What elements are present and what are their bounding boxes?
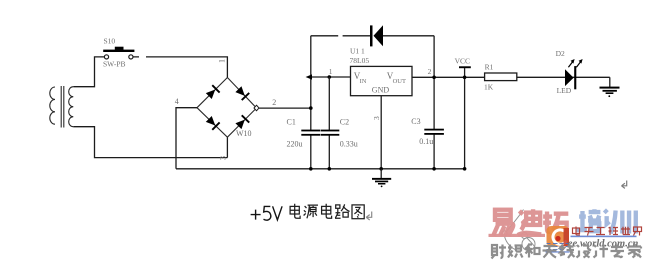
svg-text:W10: W10 [236,129,252,138]
wire secondary bottom to bridge pin3 [73,127,227,158]
char 源 [304,205,318,218]
wire bridge pin4 to ground rail [176,108,197,169]
watermark big pink 易 [493,209,568,236]
wire LED to right ground [609,77,611,87]
bridge diode lower-left [205,115,220,130]
svg-text:GND: GND [372,85,390,94]
wire switch to bridge top (with gap) [133,57,227,78]
VIN vertical line / C1 branch [310,36,312,169]
LED emission arrows [568,61,581,67]
watermark big blue 训 [604,210,635,234]
bridge diode upper-left [205,85,220,100]
svg-text:1: 1 [218,59,227,63]
svg-text:78L05: 78L05 [350,56,370,65]
专 [611,245,625,258]
svg-text:S10: S10 [104,37,116,46]
return mark right [622,181,627,189]
频 [508,245,523,258]
watermark small red 电子工程世界 [573,227,642,236]
capacitor C1 [301,130,320,132]
bridge diode upper-right [235,86,250,101]
capacitor C3 [424,129,444,131]
watermark big pink 拓 [543,211,568,231]
watermark logo square [547,226,570,247]
svg-text:1K: 1K [484,83,494,92]
svg-text:3: 3 [219,156,228,160]
wire secondary top to switch [73,57,104,87]
watermark small blue text under logo [547,244,570,250]
junction dot pin2/C3 [432,76,436,80]
svg-text:D2: D2 [556,49,565,58]
center ground symbol [380,169,382,179]
char 路 [335,204,350,218]
arrowhead at VIN [306,74,312,79]
线 [560,245,575,259]
设 [577,245,592,258]
svg-text:OUT: OUT [393,78,406,85]
diode D1 (reverse protection, pointing left) [370,25,373,46]
svg-text:R1: R1 [485,63,494,72]
wire regulator pin1 with arrow [311,76,351,78]
caption CJK 电源电路图 (hand drawn) [290,204,364,219]
resistor R1 [485,73,517,81]
svg-text:3: 3 [372,116,381,120]
svg-text:0.33u: 0.33u [340,139,358,148]
和 [525,245,540,258]
rail junction dots [309,167,313,171]
家 [628,244,641,258]
transformer core [61,86,64,128]
char 电 (second) [322,204,332,218]
char 图 [352,205,364,219]
svg-text:SW-PB: SW-PB [103,60,126,69]
wire bridge pin2 to VIN node [259,107,311,109]
C3 / diode-loop right vertical [433,36,435,169]
svg-text:2: 2 [428,67,432,76]
bridge vertex port marker [254,105,259,111]
bridge rectifier W10 diamond [197,78,257,138]
watermark antenna sketch [502,210,535,251]
char 电 [290,204,300,218]
svg-text:VCC: VCC [455,57,470,66]
ground rail [176,168,465,170]
svg-text:0.1u: 0.1u [419,137,433,146]
junction dot bridge-VIN [309,106,313,110]
svg-text:220u: 220u [287,139,303,148]
bridge diode lower-right [235,115,250,130]
svg-text:2: 2 [272,98,276,107]
计 [594,245,609,258]
svg-text:C2: C2 [340,118,349,127]
svg-text:C1: C1 [287,118,296,127]
天 [543,246,557,258]
wire regulator pin2 to LED/ground run [412,76,610,78]
VCC power symbol [459,66,471,68]
LED D2 [565,69,574,86]
svg-text:IN: IN [360,78,367,85]
svg-text:U1 1: U1 1 [350,46,365,55]
switch S10 actuator bar [103,50,134,52]
protection diode loop top wire (with gap) [311,35,434,37]
regulator GND stem [380,96,382,169]
watermark blue underline [571,236,637,238]
right ground symbol [600,87,620,89]
射 [492,245,507,259]
svg-text:1: 1 [329,67,333,76]
watermark gray row 射频和天线设计专家 [492,244,642,259]
caption +5V [251,206,283,220]
switch S10 terminals [104,55,108,59]
wire bridge bottom vertex stem [226,137,228,157]
junction dot C2 top [328,75,332,79]
transformer T secondary winding [69,87,74,127]
return mark caption [366,212,372,221]
svg-text:C3: C3 [411,117,420,126]
transformer T primary winding [50,87,55,124]
watermark pink underline [489,234,546,237]
capacitor C2 branch [328,77,330,169]
watermark big pink 迪 [518,209,542,235]
svg-text:LED: LED [557,86,572,95]
regulator U1 box [351,66,413,95]
watermark big blue 培 [576,209,636,233]
svg-text:4: 4 [175,97,179,106]
